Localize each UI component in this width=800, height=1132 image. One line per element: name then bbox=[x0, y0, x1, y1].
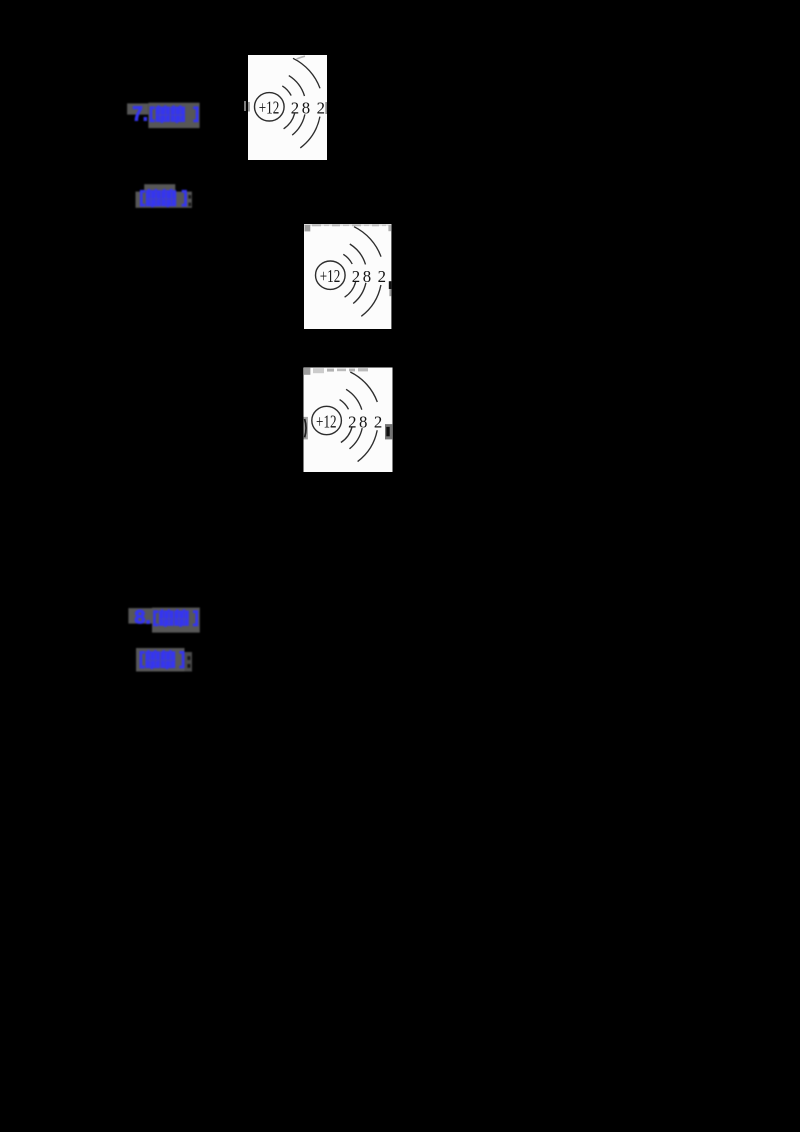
svg-text:8.: 8. bbox=[134, 607, 151, 628]
shell 3 upper arc bbox=[350, 372, 377, 402]
gray cut glyph left edge bbox=[248, 102, 250, 112]
blue label 3 "8.【答案】" with gray selection highlight bbox=[125, 604, 205, 637]
shell 3 upper arc bbox=[293, 58, 320, 88]
atom diagram box 1 (Mg atom +12, shells 2 8 2) bbox=[248, 55, 327, 160]
svg-text:8: 8 bbox=[363, 267, 371, 286]
faint arc remnant top-right bbox=[297, 56, 306, 59]
shell 1 upper arc bbox=[282, 86, 291, 96]
shell 2 upper arc bbox=[346, 389, 362, 409]
nucleus circle (+12) bbox=[255, 93, 285, 121]
small gray tick left of box 1 bbox=[244, 101, 246, 111]
svg-text:+12: +12 bbox=[316, 411, 337, 431]
svg-text:+12: +12 bbox=[320, 266, 341, 286]
shell 2 lower arc bbox=[350, 428, 363, 449]
nucleus circle (+12) bbox=[316, 261, 346, 289]
blue label 1 "7.【答案】" with gray selection highlight bbox=[124, 99, 206, 133]
svg-text:+12: +12 bbox=[259, 98, 280, 118]
shell 3 upper arc bbox=[354, 227, 381, 257]
left edge paren remnant bbox=[304, 417, 308, 440]
nucleus circle (+12) bbox=[312, 406, 342, 434]
shell 1 lower arc bbox=[284, 114, 295, 129]
atom diagram box 3 (Mg atom +12, shells 2 8 2) bbox=[303, 367, 393, 472]
right edge bracket remnant bbox=[389, 281, 392, 289]
shell 1 upper arc bbox=[340, 400, 349, 410]
svg-text:8: 8 bbox=[359, 412, 367, 431]
blue label 4 "【解析】" with gray selection highlight and colon bbox=[133, 645, 197, 675]
svg-text:8: 8 bbox=[302, 99, 310, 118]
svg-text:2: 2 bbox=[374, 412, 382, 431]
atom diagram box 2 (Mg atom +12, shells 2 8 2) bbox=[304, 224, 392, 329]
svg-text:2: 2 bbox=[291, 99, 299, 118]
shell 1 lower arc bbox=[345, 282, 356, 297]
shell 3 lower arc bbox=[361, 285, 381, 316]
shell 2 lower arc bbox=[353, 283, 366, 304]
top edge text remnants bbox=[304, 224, 391, 226]
svg-text:2: 2 bbox=[348, 412, 356, 431]
shell 2 lower arc bbox=[292, 114, 305, 135]
shell 2 upper arc bbox=[350, 244, 366, 264]
shell 3 lower arc bbox=[300, 117, 320, 148]
svg-text:2: 2 bbox=[378, 267, 386, 286]
shell 1 lower arc bbox=[341, 427, 352, 442]
gray cut glyph right edge bbox=[325, 102, 327, 114]
shell 2 upper arc bbox=[289, 76, 305, 96]
blue label 2 "【解析】" with gray selection highlight and colon bbox=[133, 182, 197, 212]
shell 3 lower arc bbox=[358, 430, 378, 461]
svg-text:2: 2 bbox=[317, 99, 325, 118]
shell 1 upper arc bbox=[343, 254, 352, 264]
right edge bracket remnant bbox=[385, 424, 392, 439]
svg-text:2: 2 bbox=[352, 267, 360, 286]
svg-text:7.: 7. bbox=[132, 103, 148, 126]
top edge text remnants bbox=[304, 368, 310, 375]
